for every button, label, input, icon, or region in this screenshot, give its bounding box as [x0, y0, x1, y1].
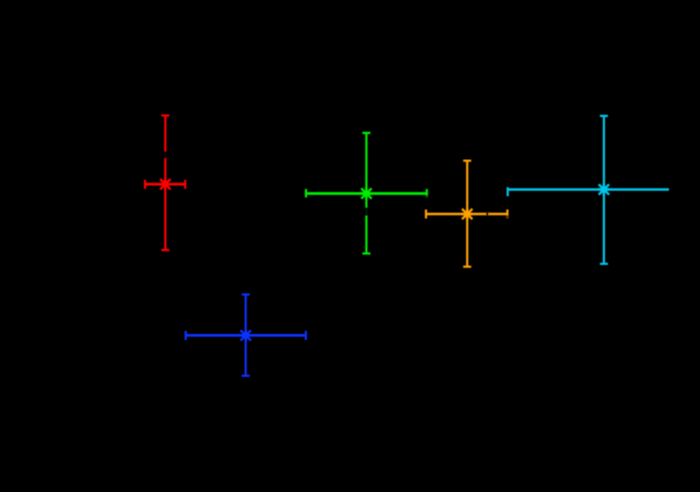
- cyan x error bar: [508, 188, 669, 190]
- red y error top cap: [161, 114, 169, 116]
- green asterisk marker: [361, 188, 372, 199]
- green y error top cap: [362, 132, 370, 134]
- cyan point series: [508, 116, 669, 264]
- cyan y error top cap: [600, 115, 608, 117]
- black dim on green right cap bottom: [425, 195, 429, 198]
- cyan x error left cap: [507, 187, 509, 196]
- green x error right cap: [426, 189, 428, 198]
- orange y error top cap: [463, 160, 471, 162]
- cyan y error bottom cap: [600, 263, 608, 265]
- blue asterisk marker: [240, 330, 251, 341]
- orange x error bar: [426, 213, 507, 216]
- red point series: [145, 116, 185, 251]
- black dim on orange right cap bottom: [505, 215, 509, 219]
- red asterisk marker: [160, 179, 171, 190]
- red y error bottom cap: [161, 249, 169, 251]
- green y error bar: [365, 133, 367, 254]
- blue x error bar: [186, 334, 306, 337]
- green x error bar: [306, 192, 427, 195]
- cyan asterisk marker: [598, 184, 609, 195]
- black overlay on green y bar: [364, 207, 369, 216]
- orange x error right cap: [506, 210, 508, 219]
- blue y error bar: [245, 295, 247, 376]
- orange y error bar: [466, 161, 468, 267]
- cyan y error bar: [603, 116, 605, 264]
- black overlay on orange x bar: [486, 211, 488, 216]
- green y error bottom cap: [362, 252, 370, 254]
- orange point series: [426, 161, 507, 267]
- orange y error bottom cap: [463, 266, 471, 268]
- black overlay on red y bar: [163, 151, 168, 158]
- blue point series: [186, 295, 306, 376]
- red y error bar: [164, 116, 166, 251]
- orange x error left cap: [425, 210, 427, 219]
- blue y error top cap: [242, 293, 250, 295]
- red x error left cap: [144, 180, 146, 189]
- blue x error left cap: [185, 331, 187, 340]
- blue x error right cap: [305, 331, 307, 340]
- orange asterisk marker: [462, 208, 473, 219]
- blue y error bottom cap: [242, 375, 250, 377]
- green point series: [306, 133, 427, 254]
- red x error right cap: [184, 180, 186, 189]
- red x error bar: [145, 183, 185, 186]
- green x error left cap: [305, 189, 307, 198]
